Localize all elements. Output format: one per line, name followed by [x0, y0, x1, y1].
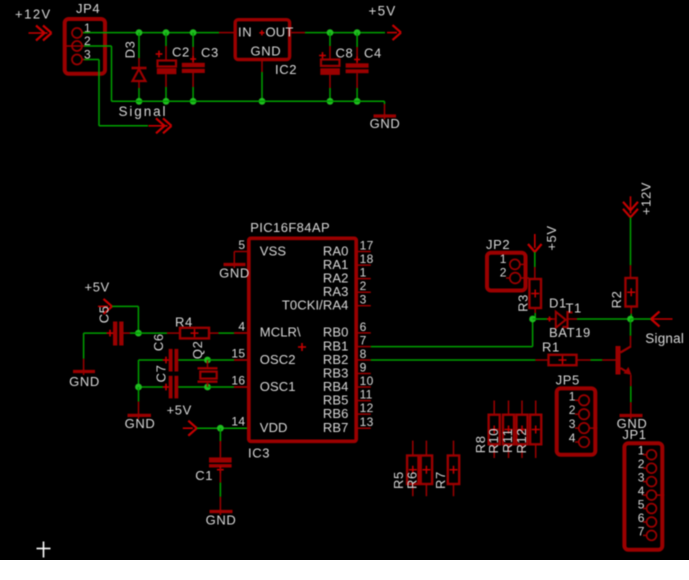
svg-text:11: 11 [360, 388, 373, 402]
svg-text:14: 14 [231, 415, 245, 429]
svg-text:R6: R6 [405, 471, 420, 489]
svg-text:1: 1 [569, 389, 576, 403]
svg-text:4: 4 [569, 431, 576, 445]
svg-text:IN: IN [238, 25, 252, 40]
svg-text:1: 1 [638, 444, 645, 458]
svg-text:2: 2 [360, 279, 367, 293]
svg-text:Signal: Signal [645, 331, 684, 346]
svg-text:C4: C4 [364, 46, 382, 61]
svg-text:VDD: VDD [260, 420, 288, 435]
svg-text:OSC2: OSC2 [260, 352, 296, 367]
svg-text:R2: R2 [609, 290, 624, 308]
svg-text:18: 18 [360, 252, 374, 266]
svg-text:GND: GND [69, 374, 100, 389]
svg-text:8: 8 [360, 347, 367, 361]
svg-text:Signal: Signal [119, 104, 168, 119]
svg-text:D3: D3 [122, 41, 137, 59]
svg-text:4: 4 [638, 484, 645, 498]
svg-text:GND: GND [251, 43, 282, 58]
svg-text:10: 10 [360, 374, 374, 388]
svg-text:JP4: JP4 [76, 1, 100, 16]
svg-text:PIC16F84AP: PIC16F84AP [250, 220, 330, 235]
svg-text:C5: C5 [96, 305, 111, 323]
svg-text:5: 5 [638, 498, 645, 512]
svg-text:C1: C1 [195, 468, 213, 483]
svg-text:+12V: +12V [639, 182, 654, 215]
svg-text:GND: GND [219, 266, 250, 281]
svg-text:1: 1 [360, 266, 367, 280]
svg-text:D1: D1 [549, 296, 567, 311]
svg-text:17: 17 [360, 239, 374, 253]
svg-text:+5V: +5V [544, 225, 559, 250]
svg-text:C6: C6 [151, 333, 166, 351]
svg-text:OUT: OUT [266, 25, 294, 40]
svg-text:C8: C8 [336, 46, 354, 61]
svg-text:R7: R7 [433, 471, 448, 489]
svg-text:3: 3 [638, 471, 645, 485]
svg-text:T0CKI/RA4: T0CKI/RA4 [282, 298, 349, 313]
svg-text:+5V: +5V [85, 280, 110, 295]
svg-text:GND: GND [206, 513, 237, 528]
svg-text:GND: GND [125, 416, 156, 431]
svg-text:7: 7 [638, 524, 645, 538]
svg-text:R10: R10 [486, 428, 501, 454]
svg-text:BAT19: BAT19 [549, 325, 591, 340]
svg-text:RB6: RB6 [323, 406, 349, 421]
svg-text:JP1: JP1 [622, 427, 646, 442]
svg-text:5: 5 [238, 238, 245, 252]
svg-text:Q2: Q2 [190, 341, 205, 360]
svg-text:C2: C2 [172, 45, 190, 60]
svg-text:2: 2 [638, 457, 645, 471]
svg-text:R3: R3 [516, 294, 531, 312]
svg-text:OSC1: OSC1 [260, 379, 296, 394]
svg-text:+5V: +5V [167, 403, 192, 418]
svg-text:3: 3 [360, 293, 367, 307]
svg-text:JP2: JP2 [486, 237, 510, 252]
svg-text:15: 15 [231, 347, 245, 361]
svg-text:R12: R12 [514, 428, 529, 454]
svg-text:T1: T1 [566, 301, 582, 316]
svg-text:9: 9 [360, 361, 367, 375]
svg-text:2: 2 [500, 266, 507, 280]
svg-text:R5: R5 [391, 471, 406, 489]
svg-text:GND: GND [370, 116, 401, 131]
svg-text:4: 4 [238, 319, 245, 333]
svg-text:2: 2 [569, 403, 576, 417]
svg-text:R4: R4 [175, 315, 193, 330]
svg-text:3: 3 [569, 417, 576, 431]
svg-text:IC3: IC3 [248, 446, 270, 461]
svg-text:VSS: VSS [260, 243, 287, 258]
svg-text:MCLR\: MCLR\ [260, 325, 301, 340]
svg-text:C3: C3 [201, 45, 219, 60]
svg-text:13: 13 [360, 415, 374, 429]
svg-text:IC2: IC2 [275, 62, 297, 77]
svg-text:JP5: JP5 [556, 373, 580, 388]
svg-text:C7: C7 [153, 364, 168, 382]
svg-text:RB7: RB7 [323, 420, 349, 435]
svg-text:R1: R1 [542, 340, 560, 355]
svg-text:6: 6 [638, 511, 645, 525]
svg-text:+12V: +12V [15, 6, 52, 21]
svg-text:6: 6 [360, 320, 367, 334]
svg-text:7: 7 [360, 334, 367, 348]
svg-text:16: 16 [231, 374, 245, 388]
svg-text:12: 12 [360, 401, 374, 415]
svg-text:+5V: +5V [369, 4, 397, 19]
svg-text:1: 1 [500, 252, 507, 266]
